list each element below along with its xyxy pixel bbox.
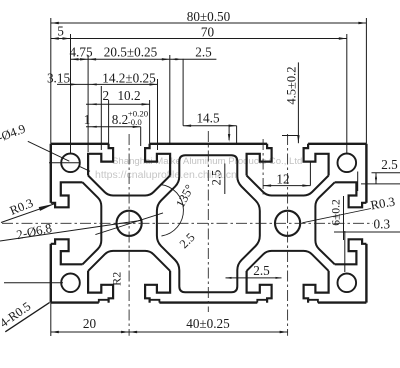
wire profile top surface — [51, 143, 109, 145]
top slot of right cell (left half) — [247, 144, 272, 176]
web/cavity floor south left cell — [88, 251, 170, 271]
svg-text:1: 1 — [84, 112, 91, 127]
left side slot (left half) — [51, 182, 83, 207]
extension line x=157.5 — [157, 79, 159, 150]
extension line x=108.6 (slot step) — [108, 100, 110, 144]
web/cavity floor south right cell — [247, 251, 329, 271]
vertical centerline right cell — [287, 134, 289, 336]
dimension 70 line — [71, 38, 347, 40]
extension line left edge — [50, 18, 52, 144]
extension line x=101.3 (lip outer) — [100, 86, 102, 150]
top slot of right cell (right half) — [304, 144, 329, 176]
wire profile bottom surface — [51, 301, 99, 303]
web/cavity floor north left cell — [88, 176, 170, 196]
svg-text:2.5: 2.5 — [195, 44, 212, 59]
leader R0.3 right — [302, 209, 371, 223]
center hole right cell (Ø6.8) — [275, 211, 300, 236]
svg-text:14.5: 14.5 — [196, 111, 219, 126]
right side slot (left half) — [335, 182, 367, 207]
web/cavity floor east of right cell — [315, 182, 334, 264]
top slot of left cell (right half) — [145, 144, 170, 176]
extension line x=169.8 — [169, 55, 171, 144]
dimension 3.15-14.2 line — [57, 83, 158, 85]
web/cavity floor west of left cell — [83, 182, 102, 264]
dimension 2-10.2 line — [86, 103, 150, 105]
vertical centerline node 12-left — [262, 139, 264, 196]
vertical centerline middle — [207, 131, 209, 312]
leader R0.3 left — [1, 204, 55, 223]
svg-text:4.75: 4.75 — [69, 44, 92, 59]
bottom slot of left cell (right half) — [145, 271, 170, 303]
svg-text:2.5: 2.5 — [253, 263, 270, 278]
right side slot (right half) — [335, 239, 367, 264]
corner hole bottom-right (Ø4.9) — [338, 274, 357, 293]
svg-text:2.5: 2.5 — [210, 170, 224, 186]
horizontal centerline — [2, 222, 373, 224]
dimension 12 line — [263, 185, 310, 187]
svg-text:10.2: 10.2 — [117, 88, 140, 103]
leader vertical x=183.1 — [182, 59, 184, 126]
bottom slot of right cell (left half) — [247, 271, 272, 303]
arc 135° — [161, 185, 184, 237]
dimension 4.75-20.5 line — [71, 58, 217, 60]
leader Ø4.9 — [28, 141, 70, 161]
dimension 1-8.2 line — [86, 126, 141, 128]
line right hole centerline — [344, 231, 346, 272]
extension line x=88.1 — [87, 55, 89, 152]
extension vertical right block — [357, 172, 359, 192]
extension line x=149.6 — [149, 100, 151, 144]
extension line x=310.4 — [309, 162, 311, 186]
svg-text:6±0.2: 6±0.2 — [330, 199, 342, 226]
extension line x=236.6 — [236, 126, 238, 144]
extension line hole-center x=346.8 — [346, 34, 348, 155]
dimension 6±0.2 line — [343, 196, 345, 240]
svg-text:-0.0: -0.0 — [128, 117, 143, 127]
centerline bottom-left hole horizontal — [4, 282, 63, 284]
svg-text:8.2: 8.2 — [112, 112, 128, 127]
wire profile left edge — [50, 144, 52, 203]
extension line right edge — [365, 18, 367, 144]
svg-text:20.5±0.25: 20.5±0.25 — [104, 44, 158, 59]
tick line for 4.5 dim — [282, 135, 299, 137]
svg-text:70: 70 — [201, 24, 215, 39]
dimension 2.5 right-top lines — [372, 172, 400, 174]
svg-text:2.5: 2.5 — [381, 157, 398, 172]
corner hole top-left (Ø4.9) — [61, 154, 80, 173]
corner hole bottom-left (Ø4.9) — [61, 274, 80, 293]
extension line x=140.7 — [140, 127, 142, 146]
wire profile right edge — [365, 144, 367, 203]
dimension 5 line — [51, 38, 71, 40]
leader 4-R0.5 — [5, 303, 49, 332]
left side slot (right half) — [51, 239, 83, 264]
svg-text:14.2±0.25: 14.2±0.25 — [102, 71, 156, 86]
top slot of left cell (left half) — [88, 144, 113, 176]
centerline top-left hole horizontal — [49, 162, 81, 164]
svg-text:0.3: 0.3 — [374, 217, 391, 232]
svg-text:Shanghai Maike Aluminum Produc: Shanghai Maike Aluminum Products Co., Lt… — [112, 156, 302, 167]
dimension 2.5 bottom-right line — [226, 277, 282, 279]
dimension 80±0.50 line — [51, 22, 367, 24]
dimension 4.5±0.2 line — [297, 62, 299, 143]
extension line hole-center x=70.5 — [70, 34, 72, 154]
leader 2-Ø6.8 — [0, 220, 142, 241]
svg-text:80±0.50: 80±0.50 — [187, 9, 231, 24]
dimension 14.5 line — [183, 125, 237, 127]
svg-text:20: 20 — [83, 316, 97, 331]
bottom slot of right cell (right half) — [304, 271, 329, 303]
svg-text:12: 12 — [276, 171, 289, 186]
web/cavity floor north right cell — [247, 176, 329, 196]
svg-text:R2: R2 — [110, 272, 124, 286]
vertical centerline left cell — [128, 134, 130, 336]
arrow pointer x=229.1 — [228, 126, 230, 140]
dimension 0.3 line — [334, 231, 400, 233]
svg-text:3.15: 3.15 — [47, 71, 70, 86]
svg-text:5: 5 — [57, 23, 64, 38]
ray through left hole — [95, 213, 163, 235]
svg-text:4.5±0.2: 4.5±0.2 — [285, 66, 299, 104]
corner hole top-right (Ø4.9) — [338, 154, 357, 173]
dimension 2.5 middle-vertical line — [224, 164, 226, 195]
bottom slot of left cell (left half) — [88, 271, 113, 303]
middle hollow chamber — [157, 155, 260, 292]
svg-text:40±0.25: 40±0.25 — [186, 316, 230, 331]
center hole left cell (Ø6.8) — [117, 211, 142, 236]
dimension 20/40 line — [51, 331, 288, 333]
extension line bottom left — [50, 303, 52, 336]
